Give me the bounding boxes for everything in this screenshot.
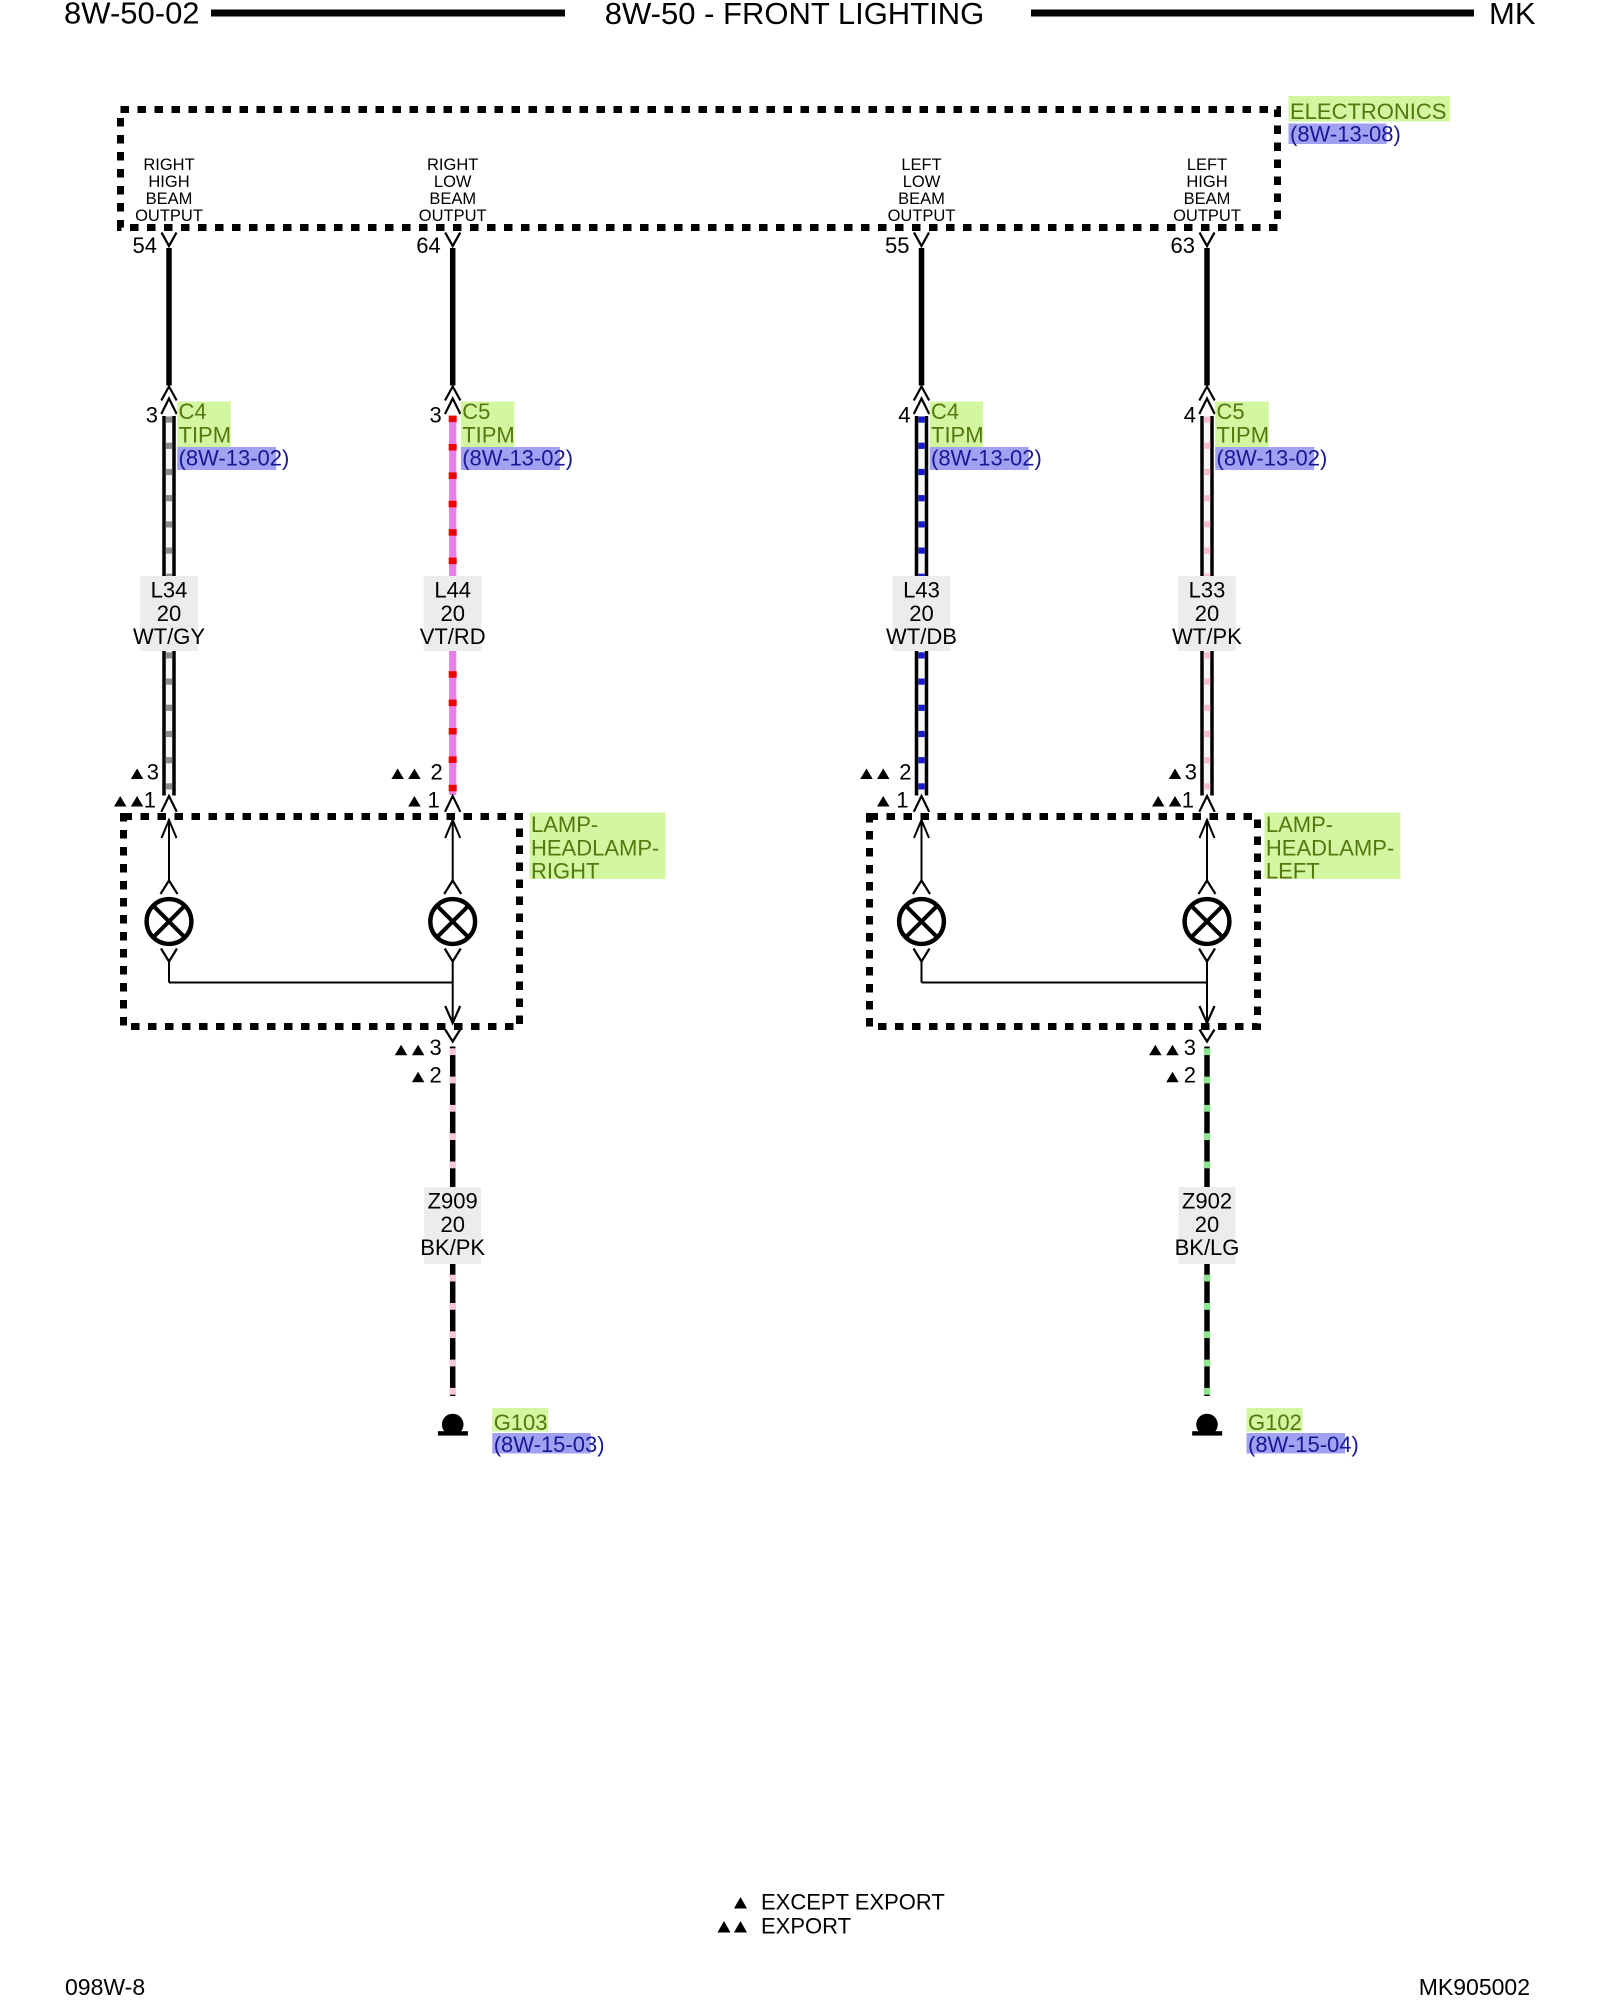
svg-text:3: 3 [1185, 760, 1197, 785]
wire label Z909 20 BK/PK [420, 1187, 485, 1264]
header rule right [1031, 10, 1474, 17]
svg-text:3: 3 [429, 1035, 441, 1060]
connector chevron into headlamp [1199, 796, 1214, 812]
label (8W-13-02) [461, 446, 573, 471]
label C5 TIPM [461, 399, 515, 447]
export mark row 1 (2) [391, 760, 442, 785]
connector chevron into headlamp [445, 796, 460, 812]
lamp LAMP-HEADLAMP-RIGHT dashed outline box [124, 817, 520, 1027]
label C4 TIPM [930, 399, 984, 447]
svg-text:1: 1 [427, 788, 439, 813]
label (8W-13-02) [177, 446, 289, 471]
svg-text:8W-50 - FRONT LIGHTING: 8W-50 - FRONT LIGHTING [605, 0, 985, 31]
label ELECTRONICS [1289, 96, 1451, 124]
svg-text:2: 2 [430, 760, 442, 785]
header rule left [211, 10, 565, 17]
arrow wire into bulb [1200, 820, 1215, 882]
label G103 [492, 1408, 548, 1435]
svg-text:3: 3 [429, 403, 441, 428]
wire bulb to junction [921, 962, 923, 983]
svg-text:2: 2 [1184, 1063, 1196, 1088]
ground G102 symbol [1192, 1414, 1222, 1436]
label LAMP-HEADLAMP-RIGHT [530, 812, 666, 884]
export mark row 2 (1) [1152, 788, 1194, 813]
export mark row 2 (1) [408, 788, 440, 813]
wire label L33 20 WT/PK [1172, 576, 1242, 651]
svg-text:55: 55 [885, 233, 909, 258]
wire bulb to junction [168, 962, 170, 983]
ground G103 symbol [438, 1414, 468, 1436]
svg-text:1: 1 [144, 788, 156, 813]
label (8W-13-08) [1289, 122, 1401, 147]
connector chevron into headlamp [161, 796, 176, 812]
export mark row 2 (1) [877, 788, 909, 813]
svg-text:(8W-13-02): (8W-13-02) [462, 446, 573, 471]
svg-text:8W-50-02: 8W-50-02 [64, 0, 200, 31]
export mark row 2 (1) [114, 788, 156, 813]
svg-text:1: 1 [1182, 788, 1194, 813]
connector C5 chevrons [445, 387, 460, 401]
connector V symbol at pin 55 [914, 233, 929, 247]
svg-text:098W-8: 098W-8 [65, 1974, 145, 2000]
label (8W-13-02) [1215, 446, 1327, 471]
svg-text:(8W-13-08): (8W-13-08) [1290, 122, 1401, 147]
arrow wire into bulb [914, 820, 929, 882]
svg-text:MK905002: MK905002 [1419, 1974, 1530, 2000]
wire Z902 20 BK/LG [1204, 1047, 1211, 1397]
export mark row 1 (3) at Z902 [1149, 1035, 1196, 1060]
export mark row 1 (3) at Z909 [395, 1035, 442, 1060]
svg-text:(8W-15-03): (8W-15-03) [494, 1432, 605, 1457]
connector chevron out of lamp [445, 1030, 460, 1042]
wire label L43 20 WT/DB [886, 576, 957, 651]
wire bulb to junction [452, 962, 454, 983]
svg-text:4: 4 [1184, 403, 1196, 428]
legend EXCEPT EXPORT [734, 1890, 945, 1915]
label (8W-15-03) [492, 1432, 604, 1457]
svg-text:1: 1 [896, 788, 908, 813]
label LAMP-HEADLAMP-LEFT [1264, 812, 1400, 884]
svg-text:MK: MK [1489, 0, 1536, 31]
wire label L44 20 VT/RD [420, 576, 486, 651]
arrow wire out of lamp box [445, 983, 460, 1024]
connector chevron into headlamp [914, 796, 929, 812]
svg-text:2: 2 [429, 1063, 441, 1088]
wire L34 20 WT/GY [162, 416, 176, 796]
connector V symbol at pin 64 [445, 233, 460, 247]
svg-text:3: 3 [146, 403, 158, 428]
export mark row 1 (2) [860, 760, 911, 785]
export mark row 2 (2) [1166, 1063, 1196, 1088]
connector V symbol at pin 63 [1200, 233, 1215, 247]
wire from pin 54 to connector C4 [166, 248, 172, 386]
wire Z909 20 BK/PK [449, 1047, 456, 1397]
arrow wire out of lamp box [1200, 983, 1215, 1024]
export mark row 1 (3) [1169, 760, 1197, 785]
label C4 TIPM [177, 399, 231, 447]
label C5 TIPM [1215, 399, 1269, 447]
connector C5 chevrons [1199, 387, 1214, 401]
label G102 [1247, 1408, 1303, 1435]
arrow wire into bulb [162, 820, 177, 882]
svg-text:(8W-13-02): (8W-13-02) [179, 446, 290, 471]
wire label L34 20 WT/GY [133, 576, 205, 651]
bulb (headlamp filament) [1185, 881, 1230, 962]
module ELECTRONICS (TIPM) dashed outline box [121, 110, 1278, 228]
connector chevron out of lamp [1200, 1030, 1215, 1042]
svg-text:64: 64 [416, 233, 440, 258]
connector C4 chevrons [161, 387, 176, 401]
arrow wire into bulb [445, 820, 460, 882]
label (8W-15-04) [1247, 1432, 1359, 1457]
label (8W-13-02) [930, 446, 1042, 471]
legend EXPORT [718, 1914, 852, 1939]
wire junction bus [922, 982, 1208, 984]
export mark row 1 (3) [131, 760, 159, 785]
lamp LAMP-HEADLAMP-LEFT dashed outline box [870, 817, 1258, 1027]
wire junction bus [169, 982, 453, 984]
wire L33 20 WT/PK [1200, 416, 1214, 796]
svg-text:(8W-13-02): (8W-13-02) [1217, 446, 1328, 471]
wire from pin 64 to connector C5 [450, 248, 456, 386]
svg-text:EXCEPT EXPORT: EXCEPT EXPORT [761, 1890, 945, 1915]
bulb (headlamp filament) [147, 881, 192, 962]
connector C4 chevrons [914, 387, 929, 401]
wire from pin 63 to connector C5 [1204, 248, 1210, 386]
bulb (headlamp filament) [430, 881, 475, 962]
svg-text:54: 54 [133, 233, 157, 258]
svg-text:3: 3 [1184, 1035, 1196, 1060]
svg-text:63: 63 [1171, 233, 1195, 258]
svg-text:(8W-13-02): (8W-13-02) [931, 446, 1042, 471]
wire bulb to junction [1206, 962, 1208, 983]
svg-text:EXPORT: EXPORT [761, 1914, 851, 1939]
bulb (headlamp filament) [899, 881, 944, 962]
svg-text:2: 2 [899, 760, 911, 785]
svg-text:4: 4 [898, 403, 910, 428]
wire from pin 55 to connector C4 [919, 248, 925, 386]
svg-text:(8W-15-04): (8W-15-04) [1248, 1432, 1359, 1457]
svg-text:3: 3 [147, 760, 159, 785]
wire label Z902 20 BK/LG [1175, 1187, 1240, 1264]
export mark row 2 (2) [412, 1063, 442, 1088]
connector V symbol at pin 54 [162, 233, 177, 247]
wire L43 20 WT/DB [915, 416, 929, 796]
svg-text:ELECTRONICS: ELECTRONICS [1290, 99, 1446, 124]
wire L44 20 VT/RD [449, 416, 457, 795]
